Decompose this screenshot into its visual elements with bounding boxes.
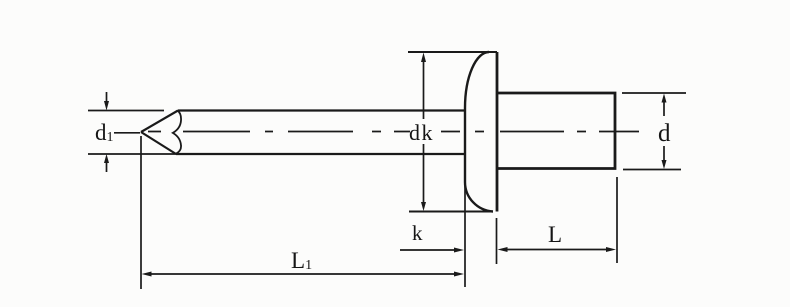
rivet body [497, 93, 615, 169]
d dimension line lower [663, 146, 665, 163]
svg-text:L: L [548, 222, 562, 247]
d upper arrow [662, 94, 667, 103]
L1 dimension line [147, 273, 458, 275]
svg-text:d: d [658, 120, 671, 147]
d lower arrow [662, 160, 667, 169]
rivet head dome curve [465, 52, 493, 212]
center line [148, 131, 639, 133]
d dimension line upper [663, 100, 665, 116]
dk lower arrow [421, 202, 426, 211]
rivet head top edge / dk top extension [408, 51, 497, 53]
d1 dimension line upper [106, 92, 108, 103]
k / L extension line (head right face) [496, 218, 498, 264]
mandrel shaft top [178, 109, 464, 111]
d1 lower arrow [104, 154, 109, 163]
dk dimension line lower [423, 144, 425, 205]
L right extension line (body end) [616, 177, 618, 263]
svg-text:k: k [412, 221, 423, 245]
L dimension line [503, 249, 610, 251]
mandrel tip [141, 111, 178, 155]
dk upper arrow [421, 53, 426, 63]
L right arrow [606, 247, 616, 252]
d1 top extension line [88, 110, 164, 112]
svg-text:dk: dk [409, 120, 434, 145]
d1 leader line [114, 132, 140, 134]
mandrel shaft bottom [176, 153, 464, 155]
L left arrow [498, 247, 508, 252]
dk dimension line upper [423, 58, 425, 119]
k arrow [454, 248, 464, 253]
L1 left extension line (tip) [140, 136, 142, 289]
rivet head flat face [496, 52, 499, 212]
d top extension line [622, 92, 686, 94]
svg-text:d1: d1 [95, 120, 114, 145]
rivet head bottom edge / dk bottom extension [409, 211, 493, 213]
L1 left arrow [142, 272, 152, 277]
d1 dimension line lower [106, 161, 108, 172]
d1 upper arrow [104, 101, 109, 111]
k / L1 extension line (head left face) [464, 185, 466, 287]
break line [173, 111, 181, 154]
d bottom extension line [623, 169, 681, 171]
d1 bottom extension line [88, 153, 176, 155]
L1 right arrow [454, 272, 464, 277]
svg-text:L1: L1 [291, 248, 312, 273]
k dimension line [400, 249, 458, 251]
